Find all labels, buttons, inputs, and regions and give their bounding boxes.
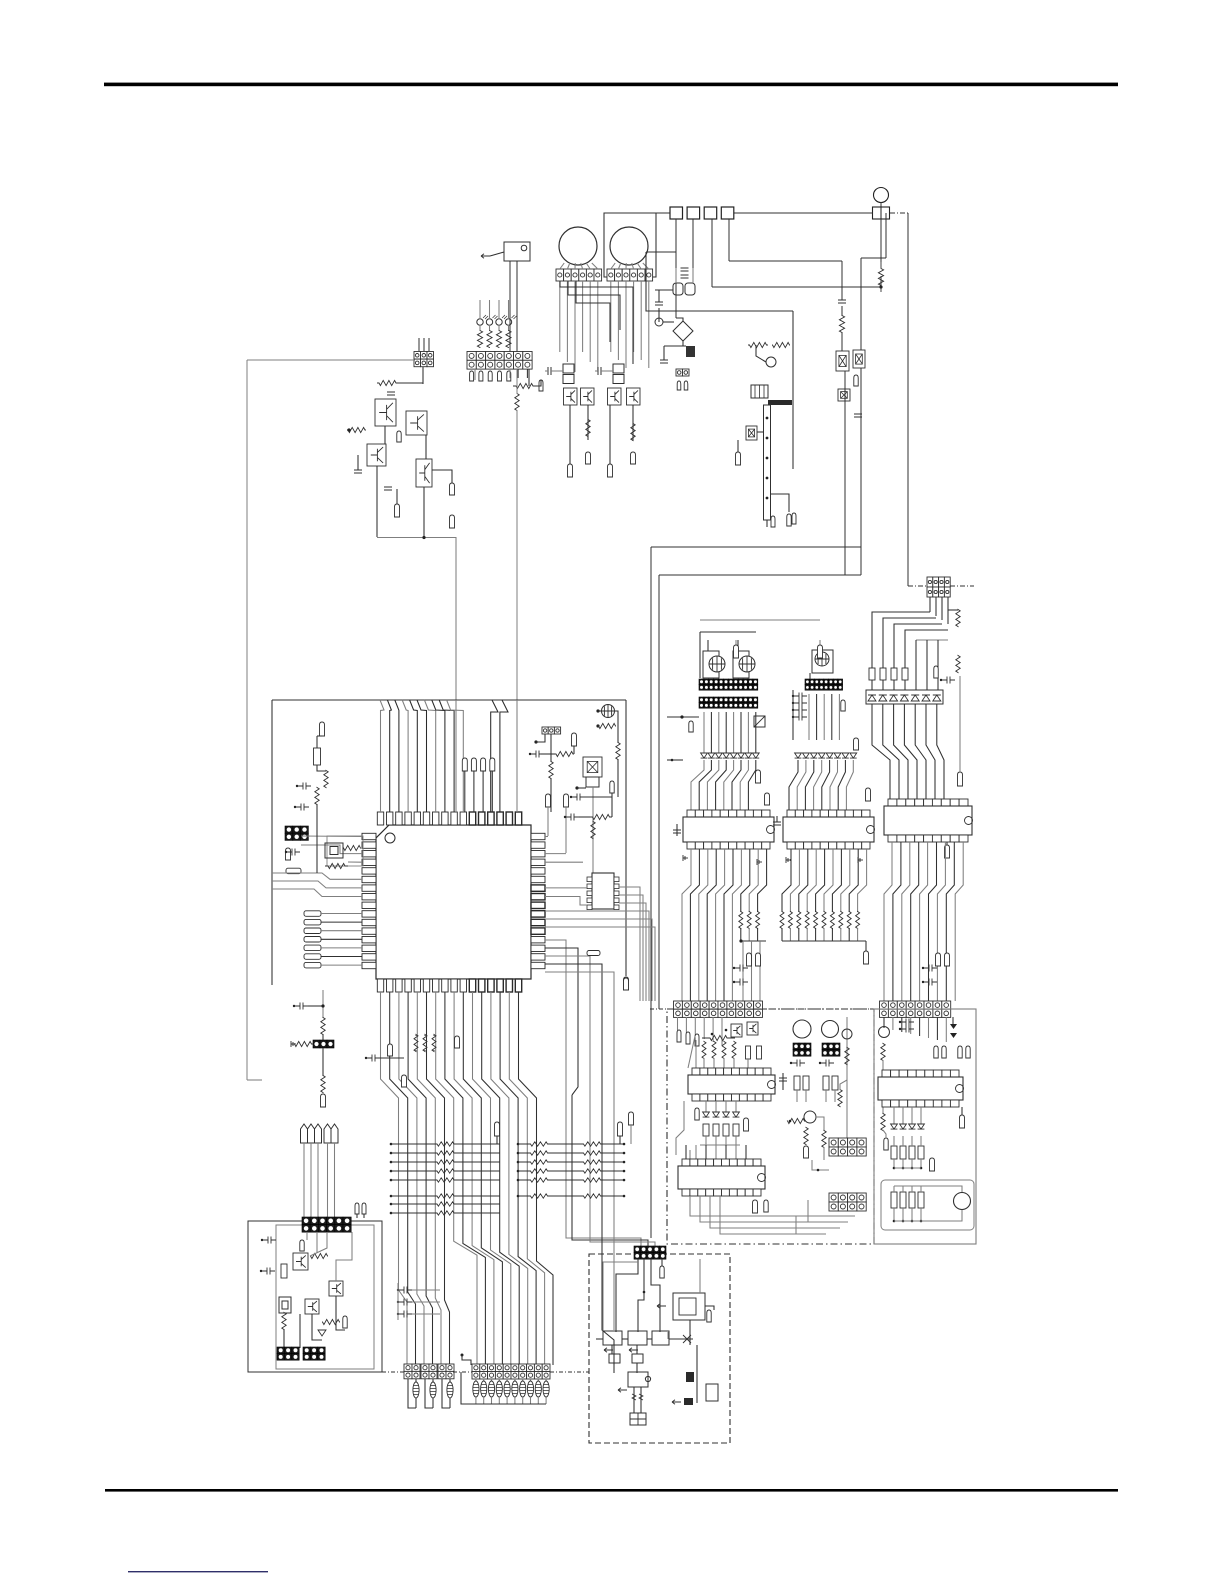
- wire: [545, 887, 587, 889]
- wire: [946, 842, 948, 845]
- transistor Q17: [686, 1372, 694, 1382]
- wire: [664, 345, 686, 347]
- wire: [316, 1232, 318, 1253]
- transistor Q18: [684, 1398, 693, 1405]
- wire: [475, 1379, 477, 1381]
- capacitor C23: [262, 1237, 276, 1244]
- wire: [822, 760, 830, 810]
- capacitor C21: [398, 1299, 412, 1306]
- wire: [509, 992, 544, 1365]
- wire: [475, 1397, 477, 1404]
- node: [304, 937, 321, 943]
- wire: [911, 842, 919, 1001]
- wire: [516, 410, 518, 700]
- wire: [412, 1313, 440, 1315]
- capacitor C31: [673, 830, 681, 833]
- wire: [676, 1101, 684, 1155]
- wire: [489, 325, 491, 330]
- wire: [919, 1017, 921, 1036]
- wire: [748, 760, 755, 810]
- resistor R66: [794, 1076, 800, 1090]
- wire: [748, 928, 750, 941]
- wire: [310, 1232, 327, 1256]
- wire: [545, 370, 548, 372]
- resistor R48: [805, 912, 809, 929]
- wire: [415, 1398, 417, 1408]
- node: [744, 1118, 749, 1131]
- connector J5b: [586, 777, 599, 787]
- node: [517, 1143, 520, 1146]
- optocoupler PC5: [583, 757, 602, 777]
- wire: [410, 700, 418, 812]
- node: [747, 953, 752, 966]
- node: [471, 758, 476, 771]
- wire: [926, 640, 928, 690]
- node: [395, 504, 400, 517]
- diode: [745, 753, 752, 758]
- wire: [336, 1296, 345, 1330]
- node: [945, 845, 950, 858]
- node: [629, 1112, 634, 1125]
- node: [911, 1220, 914, 1223]
- resistor R27: [423, 1035, 427, 1052]
- wire: [636, 1345, 638, 1354]
- wire: [567, 263, 569, 269]
- capacitor C26: [793, 693, 807, 700]
- node: [362, 1203, 366, 1214]
- wire: [712, 286, 881, 288]
- wire: [545, 940, 566, 1095]
- wire: [625, 263, 627, 269]
- node: [304, 911, 321, 917]
- wire: [306, 1232, 308, 1240]
- inductor L2: [768, 400, 792, 405]
- diode: [730, 753, 737, 758]
- resistor R10: [347, 427, 366, 432]
- capacitor C9: [655, 302, 663, 305]
- wire: [841, 332, 843, 351]
- capacitor C8: [660, 360, 668, 363]
- node: [920, 1220, 923, 1223]
- wire: [530, 1379, 532, 1381]
- wire: [498, 1379, 500, 1381]
- wire: [545, 927, 655, 1001]
- capacitor C18: [366, 1055, 380, 1062]
- node: [854, 375, 858, 386]
- transistor Q6: [766, 357, 776, 367]
- wire: [703, 1058, 705, 1068]
- wire: [757, 928, 759, 941]
- resistor R31: [321, 1076, 325, 1093]
- node: [756, 770, 761, 783]
- node: [618, 1388, 627, 1392]
- resistor R24: [324, 771, 328, 788]
- connector J16: [699, 679, 758, 690]
- node: [866, 788, 871, 801]
- node: [945, 953, 950, 966]
- wire: [625, 281, 627, 368]
- trimmer: [739, 656, 755, 672]
- wire: [759, 941, 761, 1001]
- wire: [498, 325, 500, 330]
- wire: [920, 1107, 922, 1124]
- resistor R60: [746, 1046, 751, 1059]
- resistor R64: [723, 1124, 729, 1136]
- wire: [846, 760, 853, 810]
- resistor R7: [513, 383, 536, 388]
- wire: [612, 212, 670, 214]
- wire: [545, 964, 602, 1095]
- wire boxC: [248, 1221, 382, 1372]
- IC U1: [362, 812, 545, 992]
- wire boxA: [667, 1009, 874, 1244]
- wire: [541, 753, 555, 755]
- wire: [950, 585, 974, 587]
- inductor: [535, 1381, 541, 1397]
- wire: [272, 881, 362, 888]
- wire: [758, 849, 767, 912]
- wire: [830, 760, 838, 810]
- node: [936, 953, 941, 966]
- node: [893, 1220, 896, 1223]
- resistor R38: [869, 668, 875, 680]
- wire: [865, 941, 867, 951]
- resistor R6: [506, 330, 511, 348]
- node: [586, 452, 591, 464]
- wire: [423, 338, 425, 351]
- node: [304, 962, 321, 968]
- wire: [643, 263, 649, 269]
- wire: [439, 700, 454, 812]
- wire: [831, 928, 833, 941]
- wire: [725, 712, 727, 753]
- capacitor C24: [261, 1268, 275, 1275]
- wire: [692, 219, 694, 283]
- wire: [844, 371, 846, 401]
- wire: [782, 1073, 784, 1090]
- resistor R81: [891, 1192, 897, 1208]
- wire: [710, 1196, 840, 1228]
- wire: [637, 263, 641, 269]
- diode D9: [318, 1330, 326, 1336]
- wire: [517, 369, 519, 378]
- connector J14: [472, 1364, 550, 1379]
- resistor R19: [590, 814, 612, 819]
- node: [572, 733, 577, 746]
- wire: [272, 873, 362, 879]
- wire: [334, 1143, 336, 1218]
- wire: [569, 405, 571, 464]
- wire: [412, 1301, 440, 1303]
- wire: [482, 992, 520, 1365]
- node: [321, 1004, 324, 1007]
- wire: [509, 261, 511, 352]
- resistor R21: [344, 845, 361, 850]
- capacitor C7: [681, 275, 689, 278]
- node: [879, 285, 882, 288]
- capacitor C3: [384, 487, 392, 490]
- wire: [755, 712, 757, 753]
- wire: [792, 311, 794, 469]
- transistor Q1: [375, 399, 396, 426]
- capacitor C14: [565, 814, 579, 821]
- wire: [911, 1208, 913, 1221]
- inductor: [527, 1381, 533, 1397]
- wire: [479, 325, 481, 330]
- wire: [425, 435, 427, 459]
- wire: [611, 1345, 613, 1354]
- wire: [690, 1196, 855, 1216]
- inductor L1: [673, 283, 683, 295]
- connector J5: [542, 727, 561, 734]
- wire: [536, 380, 541, 386]
- wire: [808, 694, 810, 740]
- node: [575, 786, 578, 789]
- wire: [742, 941, 744, 1001]
- wire: [537, 1379, 539, 1381]
- node: [568, 464, 573, 477]
- resistor R26: [414, 1035, 418, 1052]
- resistor R67: [803, 1076, 809, 1090]
- LED D2: [486, 319, 492, 325]
- wire: [920, 1159, 922, 1168]
- wire: [516, 369, 518, 394]
- node: [695, 1034, 699, 1046]
- node: [707, 1310, 711, 1322]
- wire: [902, 1136, 904, 1146]
- node: [498, 371, 502, 381]
- wire: [685, 1145, 687, 1159]
- wire: [483, 1397, 485, 1404]
- wire: [474, 369, 476, 380]
- transistor: [563, 364, 574, 373]
- node: [739, 939, 742, 942]
- wire: [545, 919, 652, 1001]
- node: [792, 513, 796, 524]
- wire: [646, 251, 676, 253]
- node: [631, 452, 636, 464]
- wire: [682, 849, 691, 1001]
- wire: [747, 712, 749, 753]
- wire: [920, 1208, 922, 1221]
- resistor R37: [956, 656, 960, 673]
- wire: [705, 1145, 707, 1159]
- wire: [723, 1058, 725, 1068]
- node: [766, 457, 769, 460]
- resistor R52: [839, 912, 843, 929]
- transistor Q16: [632, 1354, 643, 1363]
- resistor R23: [314, 748, 321, 765]
- wire: [432, 1398, 434, 1408]
- node: [787, 514, 791, 526]
- wire: [911, 1186, 913, 1192]
- wire: [716, 849, 725, 1001]
- wire: [894, 1167, 921, 1169]
- wire: [312, 1314, 322, 1340]
- wire: [756, 345, 766, 362]
- wire: [498, 300, 500, 319]
- node: [481, 254, 490, 258]
- resistor R43: [747, 912, 751, 929]
- LED D3: [496, 319, 502, 325]
- connector J7: [313, 1040, 334, 1048]
- wire: [740, 712, 742, 753]
- node: [966, 1046, 970, 1058]
- trimmer: [709, 656, 725, 672]
- IC U7: [683, 810, 775, 849]
- wire: [453, 1371, 472, 1373]
- wire: [689, 1320, 691, 1345]
- wire: [647, 1338, 652, 1340]
- wire boxB-sub: [881, 1180, 974, 1230]
- connector J13: [438, 1364, 454, 1379]
- node: [902, 1220, 905, 1223]
- wire: [841, 849, 850, 912]
- IC U14: [628, 1331, 647, 1345]
- wire: [632, 405, 634, 441]
- resistor R50: [822, 912, 826, 929]
- wire: [905, 630, 948, 690]
- node: [711, 1033, 714, 1036]
- node: [308, 1124, 315, 1143]
- node: [495, 1122, 500, 1136]
- wire: [908, 585, 928, 587]
- wire: [464, 771, 466, 812]
- wire: [579, 816, 590, 818]
- node: [461, 1354, 464, 1357]
- node: [623, 1195, 626, 1198]
- wire: [597, 281, 599, 372]
- resistor RR2b: [560, 1151, 624, 1155]
- node: [684, 381, 688, 390]
- wire: [636, 1363, 638, 1373]
- transistor: [581, 388, 595, 405]
- wire: [733, 712, 735, 753]
- wire: [705, 1136, 707, 1145]
- diode: [713, 1112, 720, 1117]
- wire: [640, 281, 642, 360]
- node: [539, 380, 543, 391]
- wire: [590, 1095, 655, 1247]
- inductor: [504, 1381, 510, 1397]
- capacitor C5: [598, 367, 601, 375]
- node: [864, 951, 869, 964]
- optocoupler PC3: [853, 350, 865, 368]
- node: [596, 724, 599, 727]
- wire: [283, 1329, 285, 1348]
- wire: [860, 368, 862, 575]
- connector J24: [829, 1193, 866, 1211]
- wire: [428, 338, 430, 351]
- resistor R16: [555, 751, 574, 756]
- connector J17: [699, 697, 758, 708]
- wire: [734, 212, 872, 214]
- diode: [738, 753, 745, 758]
- wire: [729, 260, 842, 262]
- transistor Q9: [305, 1299, 319, 1314]
- IC U6: [866, 690, 943, 704]
- LED D1: [477, 319, 483, 325]
- diode: [909, 1124, 916, 1129]
- wire: [651, 546, 861, 548]
- wire: [712, 1017, 714, 1042]
- wire: [482, 771, 484, 812]
- wire: [715, 1101, 717, 1112]
- wire: [883, 1017, 885, 1028]
- wire: [880, 276, 882, 287]
- diode: [900, 695, 908, 701]
- wire: [491, 700, 498, 812]
- resistor R29: [321, 1018, 325, 1035]
- connector J12: [421, 1364, 437, 1379]
- wire: [566, 281, 568, 362]
- node: [390, 1170, 393, 1173]
- wire: [516, 700, 518, 812]
- wire: [936, 1017, 938, 1040]
- transformer T1: [751, 385, 768, 398]
- wire: [551, 370, 563, 372]
- node: [623, 1170, 626, 1173]
- wire: [797, 760, 806, 810]
- wire: [733, 1058, 735, 1068]
- wire: [436, 992, 477, 1365]
- wire: [695, 310, 793, 312]
- wire: [321, 956, 362, 958]
- node: [390, 1152, 393, 1155]
- wire: [574, 281, 576, 372]
- wire: [550, 1371, 589, 1373]
- wire: [937, 704, 944, 799]
- diode: [723, 1112, 730, 1117]
- wire: [508, 300, 510, 319]
- IC U3: [592, 873, 614, 909]
- wire: [782, 849, 791, 912]
- wire: [545, 1379, 547, 1381]
- wire: [619, 903, 646, 1001]
- inductor: [520, 1381, 526, 1397]
- wire: [321, 913, 362, 915]
- resistor R33: [281, 1264, 287, 1278]
- wire: [526, 369, 528, 378]
- diode: [911, 695, 919, 701]
- node: [390, 1203, 393, 1206]
- wire: [834, 1090, 836, 1102]
- wire: [272, 889, 362, 897]
- resistor R9: [377, 380, 398, 385]
- wire: [715, 1136, 717, 1145]
- resistor R22: [325, 863, 348, 868]
- connector J2: [467, 352, 532, 370]
- capacitor C11: [854, 414, 862, 417]
- capacitor C33: [734, 979, 748, 986]
- wire: [427, 992, 450, 1365]
- wire: [519, 992, 554, 1365]
- inductor: [488, 1381, 494, 1397]
- wire: [316, 804, 318, 873]
- diode: [701, 753, 708, 758]
- wire: [893, 842, 901, 1001]
- resistor RR3b: [560, 1160, 624, 1164]
- wire: [506, 1379, 508, 1381]
- transistor Q15: [609, 1354, 620, 1363]
- node: [930, 1158, 935, 1171]
- diode: [818, 753, 825, 758]
- wire: [700, 1196, 848, 1222]
- wire: [432, 1379, 434, 1382]
- capacitor C2: [354, 470, 362, 473]
- node: [564, 794, 569, 807]
- wire: [418, 338, 420, 351]
